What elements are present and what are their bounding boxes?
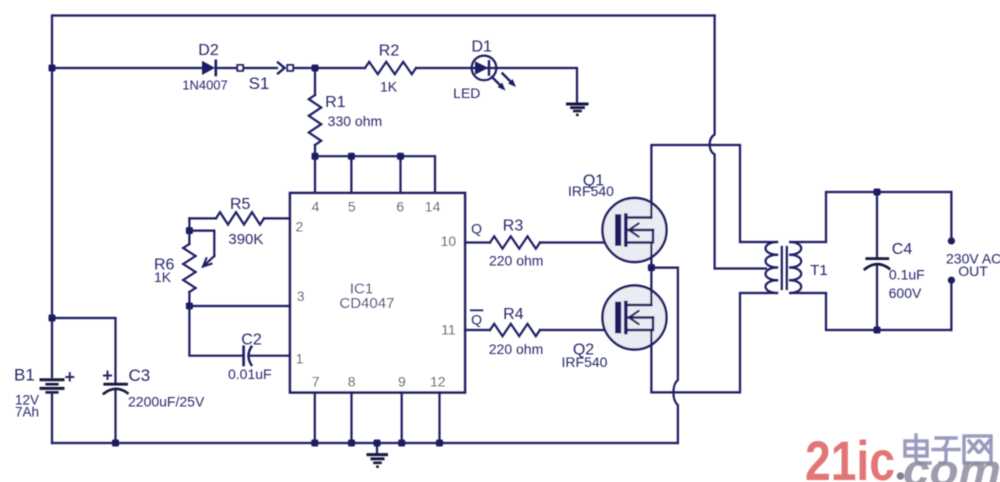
label R3 xyxy=(503,218,524,235)
wire pin 3 xyxy=(189,305,290,307)
svg-text:+: + xyxy=(65,367,76,387)
resistor R1 xyxy=(309,68,321,156)
watermark chinese characters dian zi wang xyxy=(905,435,991,463)
wire branch to C3 xyxy=(52,318,116,383)
transformer T1 core xyxy=(782,247,787,289)
svg-text:5: 5 xyxy=(348,198,356,214)
wire Q2 top lead up to junction xyxy=(650,268,652,305)
node R6 bottom / pin 3 junction xyxy=(186,303,193,310)
wire pin 4 stub xyxy=(314,156,316,193)
resistor R3 xyxy=(490,236,540,248)
pin number 7 xyxy=(312,373,320,389)
resistor R4 xyxy=(490,324,540,336)
svg-text:2200uF/25V: 2200uF/25V xyxy=(128,393,205,409)
wire output upper terminal xyxy=(950,192,952,237)
wire from R2 to LED D1 xyxy=(416,67,472,69)
wire pin 6 stub xyxy=(399,156,401,193)
svg-text:D1: D1 xyxy=(471,38,492,55)
svg-text:C3: C3 xyxy=(129,366,151,385)
svg-text:R1: R1 xyxy=(325,94,346,111)
transistor Q1 IRF540 MOSFET xyxy=(603,198,667,262)
svg-text:IRF540: IRF540 xyxy=(562,354,608,370)
pin number 11 xyxy=(441,322,456,338)
label OUT xyxy=(958,263,988,279)
svg-text:R4: R4 xyxy=(503,306,524,323)
svg-text:330 ohm: 330 ohm xyxy=(328,113,382,129)
svg-text:220 ohm: 220 ohm xyxy=(489,341,543,357)
svg-text:7: 7 xyxy=(312,373,320,389)
label 1K (R2 value) xyxy=(380,79,398,95)
wire top supply rail to IC pins 4 5 6 14 xyxy=(315,156,435,193)
wire battery negative down xyxy=(51,392,53,443)
node battery positive / D2 branch junction xyxy=(49,65,56,72)
transistor Q2 IRF540 MOSFET xyxy=(603,286,667,350)
node C3 / rail xyxy=(112,440,119,447)
node S1 / R1 / R2 junction xyxy=(312,65,319,72)
battery B1 xyxy=(41,380,63,393)
transformer T1 primary winding xyxy=(766,242,778,293)
svg-text:S1: S1 xyxy=(249,74,270,93)
switch S1 xyxy=(237,63,293,74)
wire secondary top to output loop xyxy=(802,192,951,242)
wire from D2 to switch S1 xyxy=(216,67,237,69)
svg-text:1: 1 xyxy=(296,351,304,367)
wire pin 12 stub xyxy=(438,393,440,444)
pin number 14 xyxy=(425,198,441,214)
svg-text:CD4047: CD4047 xyxy=(339,295,394,312)
label Q1 xyxy=(583,172,604,189)
wire +12V top rail from battery positive to transformer feed xyxy=(52,16,715,378)
label IRF540 (Q2) xyxy=(562,354,608,370)
wire +12V vertical feed to transformer center tap (with crossover hop) xyxy=(710,16,766,269)
label + (battery positive) xyxy=(65,367,76,387)
LED D1 xyxy=(472,56,516,91)
wire Q1 source to common node xyxy=(650,243,652,268)
wire output lower terminal xyxy=(950,284,952,330)
svg-text:1K: 1K xyxy=(154,269,172,285)
svg-text:0.01uF: 0.01uF xyxy=(228,366,272,382)
label C3 xyxy=(129,366,151,385)
svg-text:T1: T1 xyxy=(810,262,828,279)
svg-text:220 ohm: 220 ohm xyxy=(489,253,543,269)
wire R6 wiper arm with arrow xyxy=(189,231,214,267)
svg-text:6: 6 xyxy=(396,198,404,214)
wire R5 left down to R6 xyxy=(188,218,190,244)
svg-text:600V: 600V xyxy=(889,285,922,301)
label LED xyxy=(453,85,480,101)
label + (C3 positive) xyxy=(102,366,113,386)
resistor R5 xyxy=(189,212,290,224)
node pin7/rail xyxy=(311,440,318,447)
label Q (pin 10 output) xyxy=(471,221,482,237)
label 0.1uF (C4 value) xyxy=(889,267,925,283)
svg-text:B1: B1 xyxy=(14,366,35,385)
svg-text:R2: R2 xyxy=(379,42,400,59)
svg-text:LED: LED xyxy=(453,85,480,101)
label 12V xyxy=(15,393,39,408)
watermark .com xyxy=(903,446,1000,482)
pin number 8 xyxy=(348,373,356,389)
node pin12/rail xyxy=(436,440,443,447)
resistor R6 (preset) xyxy=(183,244,195,306)
node rail/pin4 xyxy=(312,153,319,160)
node rail/pin6 xyxy=(397,153,404,160)
wire from D1 to ground xyxy=(496,68,577,103)
capacitor C2 xyxy=(244,347,290,365)
wire pin 5 stub xyxy=(350,156,352,193)
label T1 xyxy=(810,262,828,279)
label 600V (C4 value) xyxy=(889,285,922,301)
label 0.01uF (C2 value) xyxy=(228,366,272,382)
label R2 xyxy=(379,42,400,59)
svg-text:390K: 390K xyxy=(228,231,263,248)
label 230V AC xyxy=(946,251,1000,267)
svg-text:IRF540: IRF540 xyxy=(568,183,614,199)
wire common source to negative rail (with crossover hop) xyxy=(651,268,678,443)
svg-text:9: 9 xyxy=(398,373,406,389)
wire secondary bottom to output loop xyxy=(802,293,951,330)
pin number 2 xyxy=(296,218,304,234)
wire negative bottom rail xyxy=(52,442,678,444)
node Q1 source / Q2 top junction xyxy=(648,264,655,271)
wire R4 to Q2 gate xyxy=(540,329,615,331)
node C4 bottom xyxy=(874,327,881,334)
label C2 xyxy=(241,332,262,349)
wire Q2 bottom lead down and over to transformer primary bottom xyxy=(651,293,766,392)
pin number 3 xyxy=(297,288,305,304)
label 330 ohm (R1 value) xyxy=(328,113,382,129)
svg-text:OUT: OUT xyxy=(958,263,988,279)
svg-text:1K: 1K xyxy=(380,79,398,95)
ground (negative rail) xyxy=(368,443,387,468)
label R4 xyxy=(503,306,524,323)
pin number 12 xyxy=(430,373,446,389)
svg-text:0.1uF: 0.1uF xyxy=(889,267,925,283)
label C4 xyxy=(892,241,913,258)
label 1K (R6 value) xyxy=(154,269,172,285)
node output terminal lower xyxy=(948,277,955,284)
node ground/rail xyxy=(374,440,381,447)
wire down to C2 row xyxy=(189,306,242,356)
node battery / C3 branch junction xyxy=(49,315,56,322)
resistor R2 xyxy=(365,62,416,74)
node pin9/rail xyxy=(398,440,405,447)
label D2 xyxy=(198,42,219,59)
label IC1 xyxy=(350,280,373,297)
diode D2 1N4007 xyxy=(202,61,216,75)
label 2200uF/25V (C3 value) xyxy=(128,393,205,409)
label 390K (R5 value) xyxy=(228,231,263,248)
pin number 6 xyxy=(396,198,404,214)
capacitor C3 xyxy=(104,384,128,443)
label R6 xyxy=(154,256,175,273)
wire pin 10 to R3 xyxy=(465,241,490,243)
svg-text:com: com xyxy=(903,446,1000,482)
label 220 ohm (R4 value) xyxy=(489,341,543,357)
svg-text:3: 3 xyxy=(297,288,305,304)
wire from S1 to node and on to R2 xyxy=(294,67,365,69)
watermark 21ic logo xyxy=(805,429,904,482)
label D1 xyxy=(471,38,492,55)
label IRF540 (Q1) xyxy=(568,183,614,199)
wire R3 to Q1 gate xyxy=(540,241,615,243)
ground (LED cathode) xyxy=(568,104,588,116)
svg-text:7Ah: 7Ah xyxy=(15,404,39,419)
label CD4047 xyxy=(339,295,394,312)
wire pin 7 stub xyxy=(314,393,316,444)
label R1 xyxy=(325,94,346,111)
label Q2 xyxy=(573,341,594,358)
wire pin 11 to R4 xyxy=(465,329,490,331)
pin number 10 xyxy=(441,233,457,249)
node pin8/rail xyxy=(348,440,355,447)
wire from +12V rail to diode D2 xyxy=(52,67,202,69)
wire pin 8 stub xyxy=(350,393,352,444)
label 1N4007 xyxy=(182,78,228,93)
capacitor C4 xyxy=(865,192,889,330)
svg-text:C2: C2 xyxy=(241,332,262,349)
label Q-bar (pin 11 output) xyxy=(471,310,483,327)
svg-text:Q: Q xyxy=(471,312,482,328)
svg-text:2: 2 xyxy=(296,218,304,234)
svg-text:R5: R5 xyxy=(230,196,251,213)
node rail/pin5 xyxy=(348,153,355,160)
svg-text:11: 11 xyxy=(441,322,456,338)
transformer T1 secondary winding xyxy=(790,242,802,293)
pin number 4 xyxy=(312,198,320,214)
svg-text:21ic: 21ic xyxy=(805,429,895,482)
svg-text:R3: R3 xyxy=(503,218,524,235)
pin number 1 xyxy=(296,351,304,367)
svg-text:C4: C4 xyxy=(892,241,913,258)
svg-text:D2: D2 xyxy=(198,42,219,59)
label 220 ohm (R3 value) xyxy=(489,253,543,269)
label B1 xyxy=(14,366,35,385)
svg-text:+: + xyxy=(102,366,113,386)
op-amp: IC U1 CD4047 body xyxy=(290,193,465,393)
svg-text:12: 12 xyxy=(430,373,446,389)
svg-text:Q: Q xyxy=(471,221,482,237)
label 7Ah xyxy=(15,404,39,419)
node R6 wiper junction xyxy=(186,227,193,234)
svg-text:10: 10 xyxy=(441,233,457,249)
node output terminal upper xyxy=(948,237,955,244)
pin number 9 xyxy=(398,373,406,389)
pin number 5 xyxy=(348,198,356,214)
wire pin 9 stub xyxy=(401,393,403,444)
label S1 xyxy=(249,74,270,93)
svg-text:1N4007: 1N4007 xyxy=(182,78,228,93)
svg-text:8: 8 xyxy=(348,373,356,389)
wire Q1 drain up and over to transformer primary top xyxy=(651,145,766,242)
node C4 top xyxy=(874,189,881,196)
svg-text:4: 4 xyxy=(312,198,320,214)
svg-text:14: 14 xyxy=(425,198,441,214)
label R5 xyxy=(230,196,251,213)
